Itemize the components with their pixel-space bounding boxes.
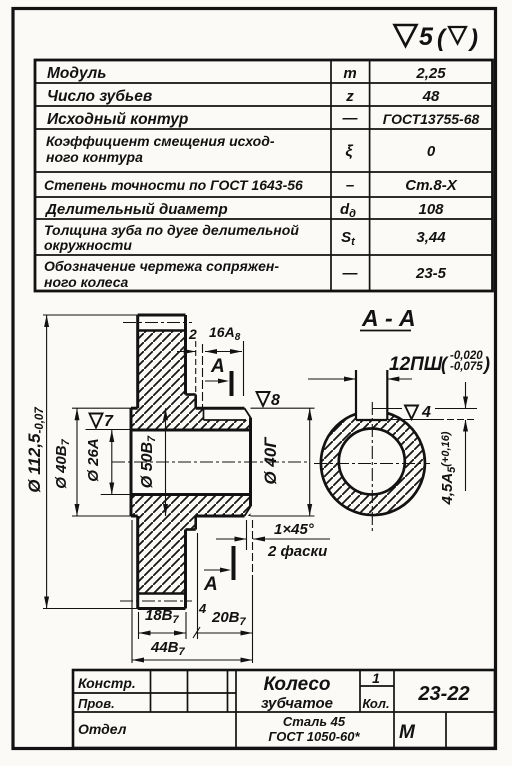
svg-text:Сталь 45: Сталь 45 (283, 714, 346, 729)
svg-text:А: А (210, 356, 225, 377)
svg-text:23-22: 23-22 (417, 683, 469, 705)
svg-text:Колесо: Колесо (263, 674, 330, 695)
svg-text:5: 5 (419, 23, 434, 51)
svg-text:Исходный контур: Исходный контур (47, 111, 188, 128)
svg-text:ГОСТ 1050-60*: ГОСТ 1050-60* (268, 729, 360, 744)
svg-text:4: 4 (421, 404, 431, 421)
svg-text:2: 2 (188, 326, 197, 342)
svg-text:ξ: ξ (345, 143, 353, 160)
svg-text:0: 0 (427, 143, 436, 160)
svg-text:): ) (482, 354, 490, 374)
svg-text:Толщина зуба по дуге делительн: Толщина зуба по дуге делительной (44, 222, 299, 238)
svg-text:1: 1 (372, 670, 380, 686)
svg-text:Констр.: Констр. (78, 675, 136, 691)
svg-text:Число зубьев: Число зубьев (47, 88, 152, 105)
svg-text:Модуль: Модуль (47, 65, 106, 82)
svg-text:ного контура: ного контура (46, 149, 143, 165)
svg-text:А - А: А - А (361, 305, 416, 331)
svg-text:3,44: 3,44 (416, 229, 446, 246)
svg-text:Степень точности по ГОСТ 1643: Степень точности по ГОСТ 1643-56 (44, 177, 303, 193)
svg-text:4: 4 (198, 601, 207, 616)
svg-text:108: 108 (418, 201, 444, 218)
svg-text:Делительный диаметр: Делительный диаметр (44, 201, 228, 218)
svg-text:m: m (343, 65, 356, 82)
svg-text:Кол.: Кол. (362, 696, 389, 711)
svg-text:Обозначение чертежа сопряжен: Обозначение чертежа сопряжен- (44, 258, 279, 274)
svg-text:А: А (203, 574, 218, 595)
svg-text:-0,075: -0,075 (450, 361, 483, 373)
svg-text:ГОСТ13755-68: ГОСТ13755-68 (383, 111, 480, 127)
svg-text:12ПШ: 12ПШ (389, 354, 443, 375)
svg-text:зубчатое: зубчатое (261, 695, 333, 712)
svg-text:Отдел: Отдел (78, 721, 127, 737)
svg-text:ного колеса: ного колеса (44, 274, 128, 290)
svg-text:z: z (345, 88, 354, 105)
svg-text:М: М (399, 722, 416, 743)
svg-text:Ст.8-Х: Ст.8-Х (405, 177, 457, 194)
svg-text:Пров.: Пров. (78, 696, 115, 711)
svg-text:2,25: 2,25 (415, 65, 446, 82)
svg-text:1×45°: 1×45° (274, 521, 315, 538)
svg-text:7: 7 (104, 413, 114, 430)
svg-text:48: 48 (422, 88, 440, 105)
svg-text:окружности: окружности (44, 237, 132, 253)
svg-text:Ø 40В7: Ø 40В7 (53, 438, 72, 488)
svg-text:2 фаски: 2 фаски (267, 543, 327, 560)
svg-text:—: — (342, 110, 359, 127)
svg-text:Ø 50В7: Ø 50В7 (139, 435, 158, 488)
svg-text:Ø 26А: Ø 26А (85, 438, 102, 481)
svg-text:23-5: 23-5 (415, 265, 447, 282)
svg-text:–: – (346, 177, 354, 194)
svg-text:Ø 40Г: Ø 40Г (261, 436, 280, 485)
svg-text:—: — (342, 265, 359, 282)
svg-text:Коэффициент смещения исход-: Коэффициент смещения исход- (46, 133, 275, 149)
svg-text:8: 8 (271, 392, 280, 409)
